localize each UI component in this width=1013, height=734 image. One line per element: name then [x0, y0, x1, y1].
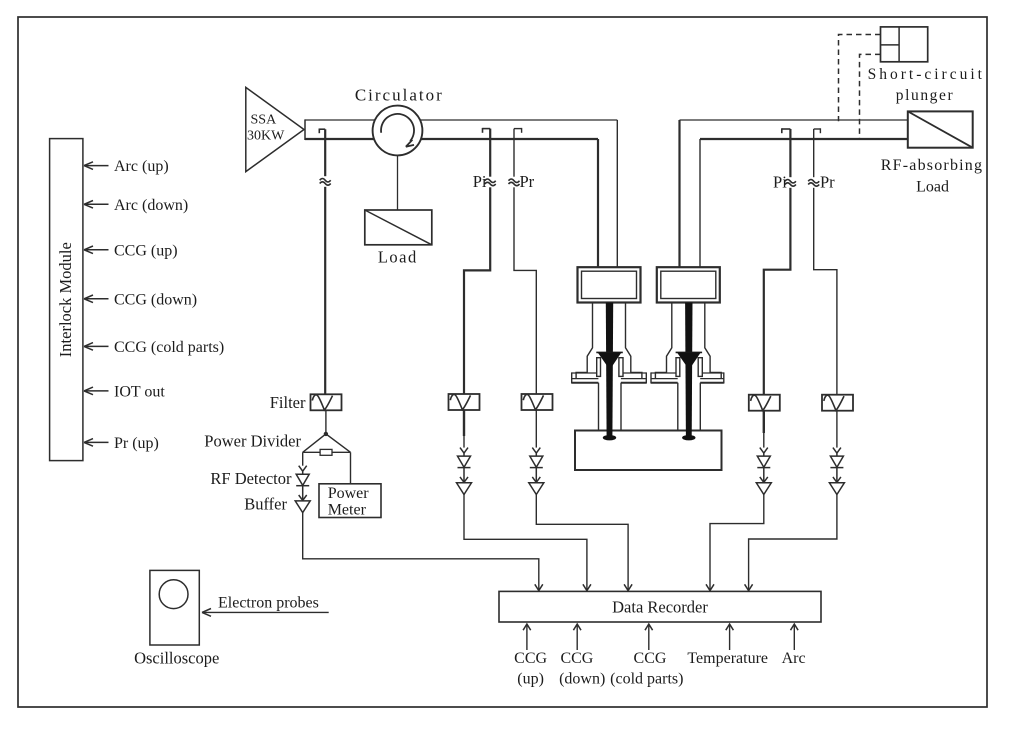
wire below coupler Pi (right pair): [763, 411, 765, 433]
beam cone: [596, 351, 623, 353]
svg-text:(down): (down): [559, 671, 605, 688]
detector chain Pi (right pair): [756, 448, 771, 495]
cavity box inner: [582, 271, 637, 298]
arrow CCG (cold parts): [84, 339, 224, 356]
arrowhead into recorder (Pr left): [624, 584, 632, 590]
wire below coupler Pr (right pair): [836, 411, 838, 448]
filter tap probe hook: [319, 129, 325, 134]
svg-text:Circulator: Circulator: [355, 86, 444, 105]
IOT cavity structure 2: [651, 267, 724, 440]
tube right wall: [626, 303, 642, 379]
neck insert right: [698, 358, 702, 377]
RF detector and buffer chain: [295, 466, 310, 513]
power divider: [303, 432, 351, 456]
IOT cavity structure 1: [572, 267, 647, 440]
waveguide bend 2 right wall: [699, 139, 701, 268]
input arrow Temperature: [687, 624, 768, 667]
short-circuit plunger box: [868, 27, 985, 104]
svg-text:SSA: SSA: [251, 113, 278, 128]
beam cone: [676, 351, 703, 353]
svg-text:RF-absorbing: RF-absorbing: [881, 157, 983, 174]
tube left wall: [655, 303, 671, 379]
wire Pr (right pair) down with jog: [814, 129, 837, 395]
break symbol on Pr wire (left pair): [509, 177, 520, 188]
arrow IOT out: [84, 384, 165, 401]
svg-text:Power Divider: Power Divider: [204, 432, 301, 451]
right flange: [700, 372, 724, 383]
wire filter to divider: [325, 411, 327, 434]
arrowhead into recorder (Pr right): [745, 584, 753, 590]
waveguide bus segment 2 bottom line: [700, 138, 908, 140]
data recorder box: [499, 591, 821, 622]
right flange: [621, 372, 646, 383]
waveguide bend 1 right wall: [616, 120, 618, 268]
Pr probe hook (right pair): [814, 128, 821, 133]
svg-text:Power: Power: [328, 485, 370, 502]
wire below coupler Pr (left pair): [535, 410, 537, 448]
oscilloscope: [134, 570, 219, 667]
detector chain Pi (left pair): [457, 448, 472, 495]
waveguide bus segment 1 bottom line: [305, 138, 598, 140]
arrow Pr (up): [84, 435, 159, 452]
svg-text:Load: Load: [916, 179, 949, 196]
Pr probe hook (left pair): [514, 128, 522, 133]
svg-text:IOT out: IOT out: [114, 384, 165, 401]
Pi probe hook (left pair): [483, 128, 491, 133]
load box: [365, 210, 432, 267]
wire Pr right chain to data recorder: [749, 495, 837, 591]
detector chain Pr (left pair): [529, 448, 544, 495]
svg-text:Electron probes: Electron probes: [218, 595, 319, 612]
input arrow CCG (up): [514, 624, 547, 688]
svg-text:CCG (up): CCG (up): [114, 242, 178, 259]
wire Pr (left pair) down with jog: [514, 129, 536, 394]
input arrow Arc: [782, 624, 806, 667]
svg-text:CCG (down): CCG (down): [114, 291, 197, 308]
cavity box outer: [578, 267, 641, 302]
input arrow CCG (down): [559, 624, 605, 688]
waveguide bend 1 left wall: [597, 139, 599, 268]
svg-text:RF Detector: RF Detector: [210, 469, 292, 488]
arrowhead into recorder (Pi left): [583, 584, 591, 590]
wire below coupler Pi (left pair): [463, 410, 465, 436]
svg-text:(cold parts): (cold parts): [610, 671, 683, 688]
lower tube right wall: [620, 383, 622, 431]
arrowhead into recorder (Pi right): [706, 584, 714, 590]
wire Pi (left pair) down with jog: [464, 129, 490, 394]
wire Pi (right pair) down with jog: [764, 129, 791, 395]
svg-text:Pi: Pi: [473, 172, 487, 191]
svg-text:Load: Load: [378, 248, 418, 267]
svg-text:plunger: plunger: [896, 87, 955, 104]
arrow CCG (up): [84, 242, 178, 259]
svg-text:CCG: CCG: [560, 650, 593, 667]
lower tube right wall: [699, 383, 701, 431]
tube left wall: [576, 303, 592, 379]
cavity box inner: [661, 271, 716, 298]
wire circulator to load: [397, 155, 399, 210]
svg-text:Arc (down): Arc (down): [114, 197, 188, 214]
svg-text:(up): (up): [517, 671, 544, 688]
arrow Arc (up): [84, 158, 169, 175]
arrow Arc (down): [84, 197, 188, 214]
svg-text:Pr: Pr: [520, 172, 535, 191]
dashed link plunger lower: [860, 54, 881, 139]
beam end cap: [682, 435, 695, 440]
filter box: [311, 394, 342, 410]
wire Pi right chain to data recorder: [710, 495, 764, 591]
svg-text:Arc (up): Arc (up): [114, 158, 169, 175]
amplifier SSA 30KW: [246, 87, 304, 171]
svg-text:Pi: Pi: [773, 173, 787, 192]
wire divider right branch: [350, 452, 352, 484]
svg-text:Meter: Meter: [328, 501, 367, 518]
svg-text:Oscilloscope: Oscilloscope: [134, 649, 219, 668]
svg-text:CCG: CCG: [634, 650, 667, 667]
wire filter tap down to filter: [324, 129, 326, 394]
waveguide bend 2 left wall: [678, 120, 680, 268]
circulator: [355, 86, 444, 156]
power meter box: [319, 484, 381, 519]
svg-text:Filter: Filter: [270, 393, 306, 412]
beam end cap: [603, 435, 616, 440]
svg-text:Short-circuit: Short-circuit: [868, 66, 985, 83]
neck insert left: [676, 358, 680, 377]
break symbol on filter wire: [320, 176, 331, 187]
waveguide bus segment 1 top line: [305, 119, 617, 121]
electron probes arrow: [202, 595, 329, 617]
wire Pi chain to data recorder: [464, 495, 587, 591]
input arrow CCG (cold parts): [610, 624, 683, 688]
break symbol on Pi wire (right pair): [785, 177, 796, 188]
tube right wall: [705, 303, 721, 379]
svg-text:Temperature: Temperature: [687, 650, 768, 667]
arrow CCG (down): [84, 291, 197, 308]
collector box: [575, 431, 722, 471]
svg-text:Pr (up): Pr (up): [114, 435, 159, 452]
svg-text:Buffer: Buffer: [244, 495, 287, 514]
coupler box Pr (left pair): [522, 394, 553, 410]
RF-absorbing load box: [881, 111, 983, 195]
waveguide bus segment 2 top line: [680, 119, 908, 121]
neck insert left: [597, 358, 601, 377]
break symbol on Pr wire (right pair): [808, 177, 819, 188]
svg-text:CCG: CCG: [514, 650, 547, 667]
interlock module box: [50, 139, 83, 461]
neck insert right: [619, 358, 623, 377]
coupler box Pi (left pair): [449, 394, 480, 410]
coupler box Pr (right pair): [822, 395, 853, 411]
svg-text:Data Recorder: Data Recorder: [612, 598, 708, 617]
wire buffer to data recorder: [303, 513, 539, 590]
break symbol on Pi wire (left pair): [485, 177, 496, 188]
coupler box Pi (right pair): [749, 395, 780, 411]
detector chain Pr (right pair): [829, 448, 844, 495]
left flange: [572, 372, 599, 383]
electron beam: [685, 303, 692, 439]
arrowhead into recorder (buffer): [535, 584, 543, 590]
wire Pr chain to data recorder: [536, 495, 628, 591]
lower tube left wall: [598, 383, 600, 431]
svg-text:Arc: Arc: [782, 650, 806, 667]
svg-text:Interlock Module: Interlock Module: [56, 242, 75, 357]
cavity box outer: [657, 267, 720, 302]
amp output port: [304, 119, 306, 140]
electron beam: [606, 303, 613, 439]
dashed link plunger upper: [839, 35, 881, 122]
svg-text:30KW: 30KW: [247, 129, 285, 144]
left flange: [651, 372, 678, 383]
wire divider left branch: [302, 452, 304, 465]
svg-text:CCG (cold parts): CCG (cold parts): [114, 339, 224, 356]
svg-text:Pr: Pr: [820, 173, 835, 192]
Pi probe hook (right pair): [782, 128, 791, 133]
lower tube left wall: [677, 383, 679, 431]
